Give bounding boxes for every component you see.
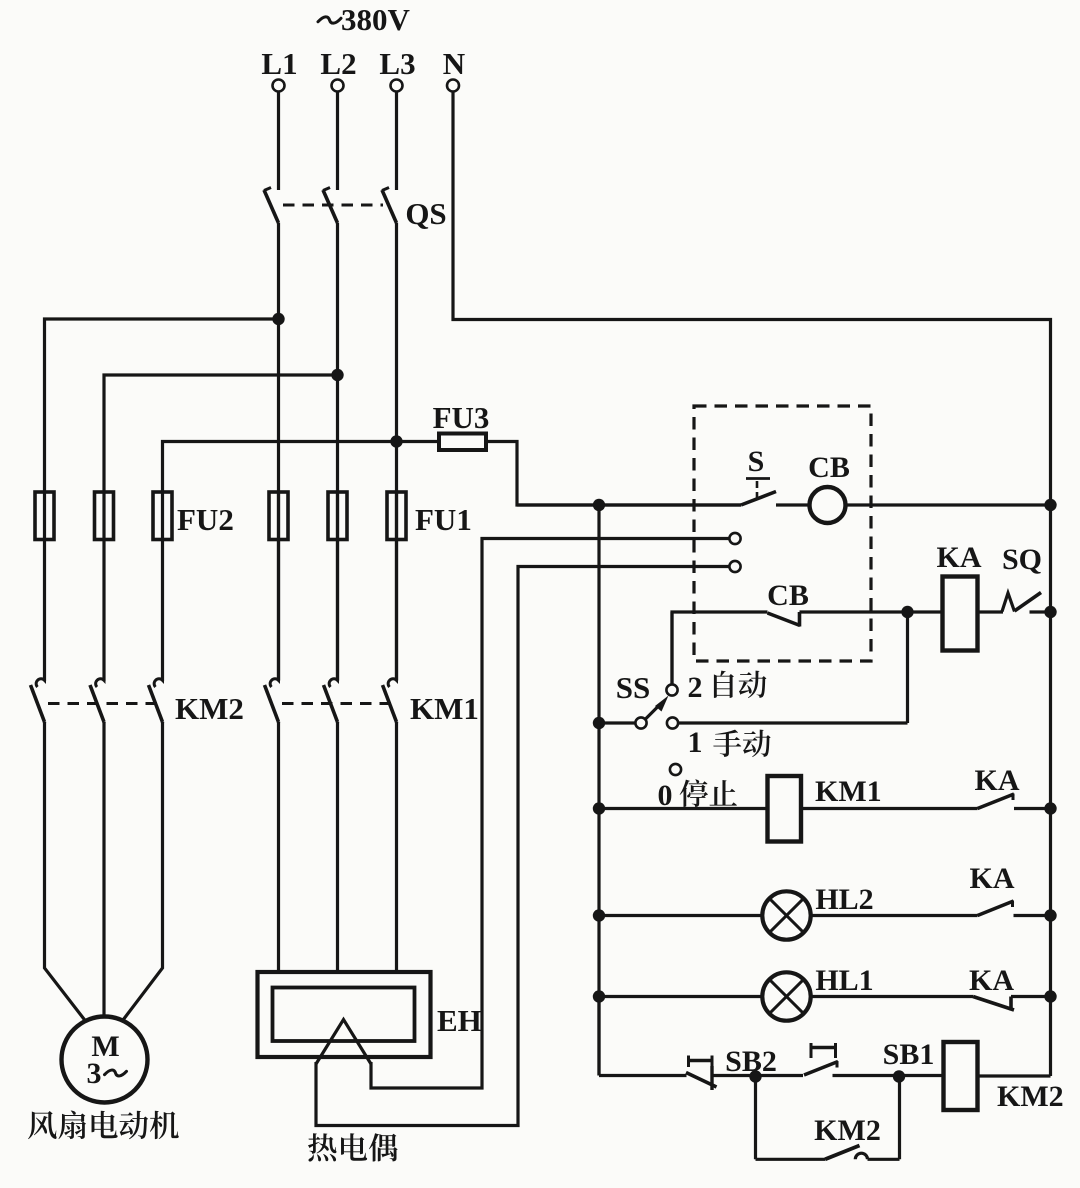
svg-text:QS: QS (405, 196, 446, 231)
svg-text:KM2: KM2 (997, 1080, 1064, 1113)
svg-text:FU3: FU3 (433, 400, 490, 435)
svg-text:HL1: HL1 (815, 964, 873, 997)
svg-text:SB2: SB2 (725, 1045, 777, 1078)
svg-text:SQ: SQ (1002, 543, 1042, 576)
svg-text:KA: KA (975, 764, 1020, 797)
svg-text:SS: SS (616, 670, 650, 705)
svg-text:EH: EH (437, 1003, 482, 1038)
svg-text:FU2: FU2 (177, 502, 234, 537)
svg-text:KM1: KM1 (410, 691, 479, 726)
svg-text:KA: KA (937, 541, 982, 574)
svg-text:SB1: SB1 (883, 1038, 935, 1071)
svg-text:CB: CB (808, 451, 850, 484)
svg-text:HL2: HL2 (815, 883, 873, 916)
svg-text:KM1: KM1 (815, 775, 882, 808)
svg-text:S: S (748, 445, 765, 478)
svg-text:L3: L3 (379, 46, 415, 81)
svg-text:FU1: FU1 (415, 502, 472, 537)
svg-text:1: 1 (688, 726, 703, 759)
svg-text:KA: KA (969, 964, 1014, 997)
svg-text:CB: CB (767, 579, 809, 612)
svg-text:KA: KA (970, 862, 1015, 895)
svg-text:3: 3 (87, 1057, 102, 1090)
svg-text:L2: L2 (320, 46, 356, 81)
svg-text:KM2: KM2 (814, 1114, 881, 1147)
svg-text:L1: L1 (261, 46, 297, 81)
svg-text:380V: 380V (341, 2, 411, 37)
svg-text:2: 2 (688, 671, 703, 704)
svg-text:N: N (443, 46, 465, 81)
svg-text:KM2: KM2 (175, 691, 244, 726)
